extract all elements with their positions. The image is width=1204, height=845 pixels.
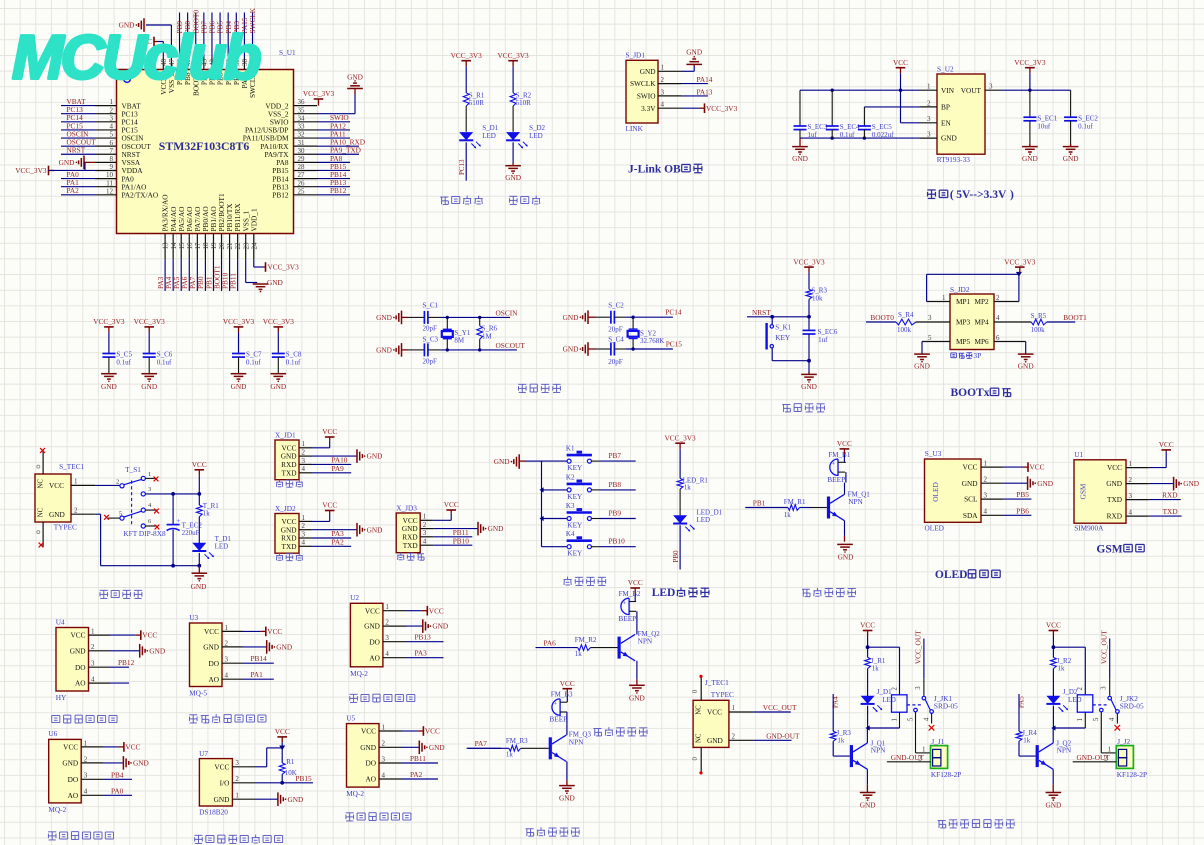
svg-text:27: 27 <box>298 171 306 179</box>
wire U5 DO PB11 <box>402 754 438 763</box>
wire S_JD1 pin1 to ground <box>681 64 694 71</box>
connector S_JD1 body <box>626 50 659 133</box>
svg-text:2: 2 <box>84 755 88 763</box>
wire S_R3 to NRST node <box>808 299 810 317</box>
svg-text:3: 3 <box>385 634 389 642</box>
svg-text:GND: GND <box>563 345 579 354</box>
svg-text:3: 3 <box>989 83 993 91</box>
MCU bottom pin 21 PB10/TX <box>220 203 234 291</box>
svg-text:HY: HY <box>56 693 67 702</box>
svg-text:34: 34 <box>298 114 306 122</box>
svg-text:MQ-5: MQ-5 <box>189 689 207 698</box>
svg-text:4: 4 <box>1109 717 1116 721</box>
svg-text:BEEP: BEEP <box>827 475 845 484</box>
MCU left pin 6 OSCOUT <box>61 138 151 151</box>
svg-text:S_R4: S_R4 <box>898 311 914 319</box>
MCU top pin 37 SWCLK <box>248 7 257 98</box>
svg-text:GND: GND <box>1063 154 1079 163</box>
svg-text:36: 36 <box>298 98 306 106</box>
S_JD2 pin2 wire <box>994 294 1019 302</box>
svg-text:GND: GND <box>432 622 448 631</box>
svg-text:28: 28 <box>298 163 306 171</box>
svg-text:S_EC1: S_EC1 <box>1037 115 1057 123</box>
svg-text:S_C5: S_C5 <box>116 351 132 359</box>
LED S_D2 <box>506 124 545 148</box>
node PA7 <box>475 739 488 748</box>
wire J_Q2 emitter to ground <box>1052 769 1054 792</box>
power VCC above U2 <box>893 58 908 73</box>
power VCC_3V3 above S_C8 <box>263 317 295 332</box>
U2 pin EN <box>920 115 951 127</box>
svg-text:3: 3 <box>382 755 386 763</box>
MCU left pin 2 PC13 <box>61 105 138 118</box>
svg-text:1: 1 <box>927 83 931 91</box>
svg-text:S_C6: S_C6 <box>157 351 173 359</box>
label 烟雾检测模块 module <box>346 813 411 821</box>
resistor S_R3 10k <box>806 287 827 303</box>
svg-text:5: 5 <box>928 334 932 342</box>
svg-text:KEY: KEY <box>567 549 583 558</box>
svg-text:KFT DIP-8X8: KFT DIP-8X8 <box>123 529 166 538</box>
svg-text:(: ( <box>950 189 954 201</box>
switch K3 KEY <box>542 502 636 530</box>
svg-text:U3: U3 <box>189 613 198 622</box>
svg-text:2: 2 <box>1129 476 1133 484</box>
svg-text:3: 3 <box>423 529 427 537</box>
wire J_R2 to J_D2 <box>1052 669 1054 698</box>
U5 pin 2 GND <box>360 740 402 752</box>
svg-text:VCC: VCC <box>1159 440 1174 449</box>
svg-text:PB12: PB12 <box>330 186 347 195</box>
svg-text:PA6: PA6 <box>544 638 557 647</box>
MCU top pin 39 PB3 <box>232 13 241 86</box>
svg-text:U1: U1 <box>1074 450 1083 459</box>
wire to power-gnd <box>198 566 200 574</box>
svg-text:VCC: VCC <box>322 501 337 510</box>
wire U5 AO PA2 <box>402 770 438 779</box>
svg-text:PA0: PA0 <box>111 786 124 795</box>
svg-text:VCC: VCC <box>837 439 852 448</box>
power VCC above T_R1 <box>192 460 207 475</box>
buzzer FM_B3 BEEP <box>549 691 573 725</box>
svg-text:1k: 1k <box>872 665 880 673</box>
svg-text:TXD: TXD <box>282 542 297 551</box>
svg-text:0.1uf: 0.1uf <box>840 131 855 139</box>
capacitor S_EC2 0.1uf <box>1063 90 1099 163</box>
svg-text:3: 3 <box>927 131 931 139</box>
svg-text:TXD: TXD <box>1163 507 1178 516</box>
svg-text:GND: GND <box>141 382 157 391</box>
U6 pin 2 GND <box>62 755 103 767</box>
svg-text:1uf: 1uf <box>818 336 828 344</box>
wire FM_Q3 to ground <box>566 780 568 786</box>
svg-text:BOOT1: BOOT1 <box>1063 313 1087 322</box>
svg-text:VCC_OUT: VCC_OUT <box>1099 630 1108 664</box>
resistor FM_R1 1k <box>745 498 827 519</box>
svg-text:VCC: VCC <box>893 58 908 67</box>
svg-text:U6: U6 <box>48 729 57 738</box>
U7 pin 3 VCC <box>214 759 255 771</box>
svg-text:VCC_3V3: VCC_3V3 <box>303 89 335 98</box>
power VCC_3V3 at MCU pin 36 VDD_2 <box>303 89 335 106</box>
wire S_JD1 pin4 VCC_3V3 <box>681 103 738 113</box>
wire X_JD3 VCC <box>433 500 459 520</box>
svg-text:S_C7: S_C7 <box>246 351 262 359</box>
svg-text:1: 1 <box>91 628 95 636</box>
X_JD2 pin 4 TXD <box>282 539 313 551</box>
node OSCIN <box>496 308 519 317</box>
wire J_TEC1 pin2 GND-OUT <box>729 731 800 740</box>
switch K1 KEY <box>542 445 636 473</box>
svg-text:S_C8: S_C8 <box>286 351 302 359</box>
svg-text:1: 1 <box>661 64 665 72</box>
svg-text:VCC_3V3: VCC_3V3 <box>15 166 47 175</box>
wire LED_D1 to PB0 <box>672 525 680 569</box>
svg-text:3: 3 <box>915 686 922 690</box>
svg-text:NPN: NPN <box>569 737 584 746</box>
svg-text:VCC_3V3: VCC_3V3 <box>706 104 738 113</box>
svg-text:R1: R1 <box>286 758 295 766</box>
MCU bottom pin 14 PA4/AO <box>164 207 178 291</box>
relay coil J_JK2 SRD-05 <box>1053 687 1144 729</box>
LED J_D2 <box>1046 688 1081 712</box>
svg-text:T_S1: T_S1 <box>125 465 141 474</box>
wire FM_Q2 to ground <box>636 679 638 685</box>
U2 pin 2 GND <box>364 619 406 631</box>
svg-text:1: 1 <box>225 624 229 632</box>
U3 pin 3 DO <box>208 656 242 668</box>
wire OSCIN rail <box>440 316 510 319</box>
svg-text:MP4: MP4 <box>975 318 990 327</box>
svg-text:GND: GND <box>364 622 380 631</box>
svg-text:6: 6 <box>110 139 114 147</box>
MCU top pin 41 PB5 <box>216 13 225 86</box>
X_JD3 pin 2 GND <box>402 521 433 533</box>
S_U3 pin 3 SCL <box>964 492 1003 504</box>
X_JD1 pin 1 VCC <box>281 440 312 452</box>
svg-text:VCC_3V3: VCC_3V3 <box>223 317 255 326</box>
svg-text:30: 30 <box>298 147 306 155</box>
wire U5 GND <box>402 741 445 755</box>
wire S_JD1 pin3 PA13 <box>681 87 713 96</box>
svg-text:8M: 8M <box>454 337 465 345</box>
svg-text:TXD: TXD <box>1107 495 1122 504</box>
buzzer FM_B1 BEEP <box>827 451 850 484</box>
label relay control circuit <box>938 820 1015 828</box>
wire U7 VCC up <box>256 746 286 767</box>
svg-text:SIM900A: SIM900A <box>1074 523 1104 532</box>
svg-text:SWCLK: SWCLK <box>630 79 656 88</box>
svg-text:BOOTx: BOOTx <box>951 387 990 399</box>
svg-text:BOOT0: BOOT0 <box>870 313 894 322</box>
wire S_D2 to ground <box>512 142 514 165</box>
ground below S_EC3 <box>792 138 808 163</box>
U6 pin 1 VCC <box>63 739 103 751</box>
svg-text:AO: AO <box>208 675 219 684</box>
svg-text:K1: K1 <box>566 445 575 453</box>
MCU right pin 33 PA12/USB/DP <box>245 121 350 134</box>
svg-text:24: 24 <box>250 242 258 250</box>
svg-text:KEY: KEY <box>567 492 583 501</box>
connector U6 MQ-2 body <box>48 729 81 814</box>
svg-text:3: 3 <box>928 314 932 322</box>
connector J_TEC1 body <box>693 678 734 747</box>
svg-text:KF128-2P: KF128-2P <box>1117 770 1147 779</box>
svg-text:MCUclub: MCUclub <box>12 24 261 93</box>
X_JD1 pin 3 RXD <box>281 457 312 469</box>
U2 pin 3 DO <box>369 634 406 646</box>
svg-text:GND: GND <box>914 362 930 371</box>
svg-text:GND: GND <box>1018 362 1034 371</box>
svg-text:4: 4 <box>661 101 665 109</box>
ground below J_Q2 <box>1045 793 1061 810</box>
svg-text:3: 3 <box>225 656 229 664</box>
wire key bus <box>526 461 544 547</box>
svg-text:VCC: VCC <box>860 621 875 630</box>
svg-text:PB11: PB11 <box>410 754 426 763</box>
svg-text:TYPEC: TYPEC <box>54 523 77 532</box>
X_JD2 pin 3 RXD <box>281 530 312 542</box>
svg-text:GND: GND <box>270 382 286 391</box>
MCU top pin 42 PB6 <box>208 13 217 86</box>
svg-text:3: 3 <box>302 457 306 465</box>
svg-text:PB8: PB8 <box>609 480 622 489</box>
svg-text:GND: GND <box>559 794 575 803</box>
LED LED_D1 <box>673 509 723 532</box>
svg-text:0.1uf: 0.1uf <box>286 359 301 367</box>
svg-text:1k: 1k <box>1058 665 1066 673</box>
connector X_JD1 body <box>275 431 299 480</box>
svg-text:S_EC5: S_EC5 <box>872 123 892 131</box>
svg-text:4: 4 <box>225 672 229 680</box>
MCU right pin 30 PA9/TX <box>264 146 361 159</box>
svg-text:10k: 10k <box>812 294 823 302</box>
svg-text:AO: AO <box>68 791 79 800</box>
MCUclub logo <box>12 24 261 93</box>
svg-text:1: 1 <box>302 440 306 448</box>
svg-text:S_EC3: S_EC3 <box>808 123 828 131</box>
node BOOT0 <box>870 313 894 322</box>
capacitor S_EC5 0.022uf <box>858 107 894 139</box>
svg-text:DS18B20: DS18B20 <box>199 807 228 816</box>
S_JD1 pin 3 SWIO <box>637 88 681 100</box>
power VCC_3V3 above S_C6 <box>134 317 166 332</box>
svg-text:2: 2 <box>661 76 665 84</box>
node OSCOUT <box>496 341 526 350</box>
svg-text:3.3V: 3.3V <box>641 104 656 113</box>
svg-text:NRST: NRST <box>752 308 771 317</box>
svg-text:GND: GND <box>367 525 383 534</box>
svg-text:S_EC6: S_EC6 <box>818 328 838 336</box>
svg-text:4: 4 <box>302 465 306 473</box>
svg-text:VCC: VCC <box>275 727 290 736</box>
svg-text:LED: LED <box>882 696 896 704</box>
svg-text:PC15: PC15 <box>666 339 683 348</box>
node BOOT1 <box>1063 313 1087 322</box>
svg-text:20pF: 20pF <box>423 325 438 333</box>
svg-text:PA2/TX/AO: PA2/TX/AO <box>122 191 159 200</box>
MCU bottom pin 24 VDD_1 <box>249 208 258 259</box>
MCU right pin 29 PA8 <box>276 154 350 167</box>
svg-text:LED: LED <box>697 516 711 524</box>
svg-text:PA3: PA3 <box>415 649 428 658</box>
svg-text:4: 4 <box>302 539 306 547</box>
svg-text:+: + <box>623 601 627 607</box>
svg-text:KEY: KEY <box>567 520 583 529</box>
wire S_R1 middle <box>465 106 467 132</box>
svg-text:FM_B2: FM_B2 <box>619 590 641 598</box>
svg-text:9: 9 <box>110 163 114 171</box>
svg-text:5: 5 <box>110 131 114 139</box>
wire VCC down <box>198 475 200 505</box>
capacitor S_C7 0.1uf <box>232 332 262 373</box>
svg-text:): ) <box>1010 189 1014 201</box>
svg-text:TXD: TXD <box>403 541 418 550</box>
X_JD1 pin 2 GND <box>281 449 312 461</box>
svg-text:3: 3 <box>235 759 239 767</box>
svg-text:VCC: VCC <box>192 460 207 469</box>
svg-text:S_EC2: S_EC2 <box>1078 115 1098 123</box>
svg-text:LED: LED <box>215 543 229 551</box>
MCU bottom pin 19 PB1/AO <box>204 206 218 291</box>
svg-text:RXD: RXD <box>1162 491 1177 500</box>
MCU left pin 11 PA1/AO <box>61 178 146 191</box>
svg-text:2: 2 <box>225 639 229 647</box>
MCU right pin 25 PB12 <box>272 186 350 199</box>
svg-text:DO: DO <box>369 637 380 646</box>
svg-text:2: 2 <box>1077 687 1084 691</box>
svg-text:GND: GND <box>101 382 117 391</box>
power VCC_3V3 above LED_R1 <box>664 433 696 448</box>
power VCC_3V3 above S_JD2 <box>1004 257 1036 272</box>
label J-Link OB port <box>628 163 702 175</box>
svg-text:VCC: VCC <box>444 500 459 509</box>
MCU bottom pin 18 PB0/AO <box>196 206 210 291</box>
wire X_JD2 pin3 PA3 <box>312 529 351 538</box>
svg-text:GND: GND <box>376 346 392 355</box>
svg-text:SWIO: SWIO <box>637 92 656 101</box>
wire U5 VCC <box>402 726 440 736</box>
ground left of S_C2 <box>563 310 607 324</box>
MCU right pin 26 PB13 <box>272 178 350 191</box>
ground at MCU pin 23 VSS_1 <box>246 259 283 292</box>
wire S_R2 middle <box>512 106 514 132</box>
label GSM module <box>1096 543 1144 555</box>
svg-text:VCC: VCC <box>1046 621 1061 630</box>
transistor FM_Q1 NPN <box>827 483 870 536</box>
svg-text:PC14: PC14 <box>665 308 682 317</box>
svg-text:KF128-2P: KF128-2P <box>931 770 961 779</box>
svg-text:GND: GND <box>563 313 579 322</box>
ground below reset <box>801 374 817 391</box>
resistor J_R1 1k <box>865 647 886 672</box>
connector U5 MQ-2 body <box>346 713 379 798</box>
svg-text:VCC_OUT: VCC_OUT <box>914 630 923 664</box>
svg-text:TYPEC: TYPEC <box>711 690 734 699</box>
capacitor S_C5 0.1uf <box>102 332 132 373</box>
wire bottom rail <box>101 564 202 568</box>
svg-text:S_U2: S_U2 <box>937 65 954 74</box>
label programmable-led <box>440 196 482 205</box>
svg-text:5: 5 <box>907 717 914 721</box>
svg-text:GND: GND <box>860 801 876 810</box>
svg-text:VCC: VCC <box>204 627 219 636</box>
svg-text:32: 32 <box>298 131 306 139</box>
svg-text:SRD-05: SRD-05 <box>1120 702 1144 711</box>
wire GND-OUT to J_J1 pin2 <box>887 753 931 762</box>
svg-text:OSCOUT: OSCOUT <box>496 341 526 350</box>
MCU right pin 35 VSS_2 <box>268 106 317 118</box>
svg-text:GND: GND <box>792 154 808 163</box>
svg-text:20pF: 20pF <box>423 358 438 366</box>
svg-text:U5: U5 <box>346 713 355 722</box>
wire X_JD2 pin4 PA2 <box>312 538 351 547</box>
svg-text:GND: GND <box>686 48 702 57</box>
svg-text:NPN: NPN <box>871 745 886 754</box>
relay switch pin 5 to J_J2 <box>1093 708 1116 753</box>
wire to reset ground <box>808 361 810 375</box>
MCU right pin 27 PB14 <box>272 170 350 183</box>
svg-text:GND: GND <box>360 743 376 752</box>
power VCC above FM_B3 <box>560 679 575 694</box>
svg-text:J_J2: J_J2 <box>1117 737 1130 746</box>
svg-text:GND: GND <box>288 795 304 804</box>
wire J_R1 to J_D1 <box>867 669 869 698</box>
LED J_D1 <box>861 688 896 712</box>
power VCC_3V3 above S_R2 <box>497 51 529 66</box>
wire U3 AO PA1 <box>243 670 274 679</box>
MCU top pin 43 PB7 <box>199 13 208 86</box>
svg-text:0.1uf: 0.1uf <box>116 359 131 367</box>
MCU left pin 7 NRST <box>61 146 141 159</box>
svg-text:PB11: PB11 <box>228 273 237 289</box>
relay switch common pin 3 VCC_OUT <box>914 630 931 710</box>
wire S_D1 to PC13 <box>458 142 466 180</box>
svg-text:2: 2 <box>91 643 95 651</box>
svg-text:3P: 3P <box>973 351 981 360</box>
svg-text:GND: GND <box>1022 154 1038 163</box>
svg-text:2: 2 <box>302 449 306 457</box>
svg-text:VCC: VCC <box>1107 463 1122 472</box>
U6 pin 3 DO <box>68 772 103 784</box>
svg-text:S_C3: S_C3 <box>423 336 439 344</box>
ground below S_JD2 pin6 <box>1018 354 1034 371</box>
svg-text:0.1uf: 0.1uf <box>246 359 261 367</box>
svg-text:OLED: OLED <box>925 524 944 533</box>
svg-text:J_J1: J_J1 <box>931 737 944 746</box>
wire U2 GND <box>407 619 449 633</box>
svg-text:0.1uf: 0.1uf <box>157 359 172 367</box>
U4 pin 1 VCC <box>70 628 110 640</box>
svg-text:OSCIN: OSCIN <box>496 308 519 317</box>
svg-text:220uF: 220uF <box>182 529 200 537</box>
resistor S_R2 510R <box>510 92 531 108</box>
U2 pin 4 AO <box>369 650 406 662</box>
svg-text:0: 0 <box>692 689 699 693</box>
svg-text:LINK: LINK <box>626 124 644 133</box>
svg-text:VCC: VCC <box>142 631 157 640</box>
svg-text:2: 2 <box>382 740 386 748</box>
MCU bottom pin 23 VSS_1 <box>241 210 250 259</box>
svg-text:3: 3 <box>927 115 931 123</box>
S_TEC1 pin1 wire <box>71 478 120 486</box>
svg-text:4: 4 <box>423 538 427 546</box>
connector U2 MQ-2 body <box>350 593 383 678</box>
svg-text:11: 11 <box>106 179 113 187</box>
svg-text:+: + <box>177 518 181 525</box>
U1 pin 3 TXD <box>1107 492 1149 504</box>
svg-text:BEEP: BEEP <box>618 614 636 623</box>
